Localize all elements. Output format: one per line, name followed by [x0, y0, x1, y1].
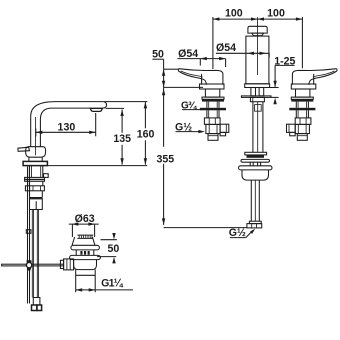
svg-text:130: 130 — [58, 121, 76, 133]
svg-text:160: 160 — [137, 129, 155, 141]
supply tube 1 — [32, 210, 33, 298]
body neck left line — [28, 157, 30, 161]
flange dish 2 — [70, 255, 101, 259]
valve L washer outline — [202, 97, 224, 99]
dim 1-25 underline — [275, 64, 295, 66]
hose end bold square right — [37, 305, 42, 311]
washer bar 2 — [25, 180, 45, 182]
svg-text:50: 50 — [108, 243, 120, 255]
drain dish 2 (front) — [239, 166, 273, 170]
dim 100-100 line — [213, 18, 303, 20]
dim 160 arrow down — [144, 158, 147, 165]
RIGHT VALVE (mirror) — [287, 69, 337, 141]
base plate — [23, 161, 47, 165]
supply manifold — [30, 199, 43, 210]
spout body (front) — [246, 36, 269, 84]
valve L nut — [204, 118, 220, 125]
dim O54L line — [177, 58, 225, 60]
shank inner thread lines — [32, 166, 41, 178]
lever handle right valve — [292, 69, 336, 85]
dim O54L tick left — [199, 59, 201, 66]
valve R shank lower inner — [298, 110, 307, 118]
ext line spout washer plate — [271, 96, 278, 98]
lever boss hex — [64, 259, 74, 270]
manifold top double line — [30, 198, 43, 199]
valve L black bar 1 — [202, 99, 224, 101]
drain collar — [249, 221, 261, 223]
slotted band right — [93, 250, 95, 256]
dim 50/355 vertical line lower — [163, 164, 165, 225]
valve R nut facets — [300, 118, 306, 125]
svg-text:100: 100 — [225, 8, 243, 20]
dim G114 arrow right — [89, 288, 96, 291]
ball joint cone — [27, 268, 31, 271]
valve L nut facets — [209, 118, 215, 125]
waste cap crown bottom — [77, 237, 93, 239]
hose end bold square left — [32, 305, 37, 311]
lever inner edge left valve — [181, 71, 203, 77]
shank mid — [29, 181, 42, 186]
valve L body block — [206, 124, 220, 133]
SIDE VIEW FAUCET — [2, 102, 148, 311]
lever arm underside right valve — [309, 69, 337, 85]
dim O63 arrow left — [72, 222, 79, 225]
dim G12 arrow — [198, 130, 205, 133]
crown knurl ticks — [79, 235, 92, 238]
lever inner edge right valve — [313, 71, 335, 77]
slot 3 — [88, 251, 90, 255]
dim 355 arrow down — [162, 218, 165, 225]
ext line escutcheon — [164, 86, 203, 88]
lower neck — [30, 191, 43, 198]
valve L side fitting — [220, 124, 229, 132]
deck line — [47, 165, 147, 167]
svg-text:Ø54: Ø54 — [216, 42, 236, 54]
dim O54S arrow right — [260, 52, 267, 55]
pull rod — [28, 167, 30, 304]
lever arm underside left valve — [178, 69, 206, 85]
dim G12d diagonal leader — [246, 230, 253, 237]
slotted band left — [75, 250, 77, 256]
riser center line — [35, 117, 37, 155]
dim 1-25 arrow down — [273, 81, 276, 88]
ext line handle top — [164, 68, 179, 70]
dim 130 arrow left — [36, 131, 43, 134]
supply manifold divider — [35, 201, 37, 209]
ext line drain fitting — [164, 227, 247, 229]
dim 100 center arrow left — [251, 17, 258, 20]
dim 135 arrow up — [120, 110, 123, 117]
lever boss end nut — [60, 260, 63, 268]
flange dish 1 — [71, 245, 100, 250]
dim G114 arrow left — [76, 288, 83, 291]
dim 50/355 vertical line upper — [163, 59, 165, 147]
ext line right valve axis — [301, 17, 303, 68]
spout aerator trapezoid — [252, 33, 264, 36]
tailpiece right wall — [94, 270, 96, 293]
ext line left valve axis — [212, 17, 214, 69]
dim 50 arrow down — [162, 81, 165, 88]
svg-text:135: 135 — [113, 133, 131, 145]
ext line drain body bottom — [97, 256, 116, 258]
dim O63 line — [69, 223, 99, 225]
valve L escutcheon — [200, 84, 225, 89]
valve L side fitting inner — [225, 124, 227, 132]
drain top line — [245, 152, 267, 155]
dim 50 underline — [152, 58, 163, 60]
DIMENSIONS — [36, 8, 303, 292]
valve L bottom block line — [208, 135, 218, 137]
dim O54L arrow left — [200, 57, 207, 60]
tailpiece thread line — [76, 274, 96, 276]
valve L bottom block — [208, 134, 218, 141]
aerator — [90, 108, 102, 111]
supply tube 2 — [37, 210, 38, 298]
ext line spout escutcheon bottom — [270, 87, 279, 89]
dim 100 center arrow right — [258, 17, 265, 20]
dim G34 underline leader — [182, 109, 201, 111]
spout inner bottom line — [40, 108, 90, 147]
dim G12d arrow — [250, 229, 255, 234]
valve R body block — [295, 124, 309, 133]
dim O54L arrow right — [219, 57, 226, 60]
valve R fitting step — [290, 132, 296, 135]
drain tube center line — [254, 180, 256, 221]
hose end fitting — [33, 298, 40, 306]
valve L shank lower inner — [209, 110, 218, 118]
ball joint — [26, 262, 31, 267]
hex nut facets — [30, 186, 41, 191]
drain studs (front) — [250, 162, 260, 166]
shank right wall — [42, 166, 44, 178]
valve L fitting step — [220, 132, 226, 135]
valve R side fitting inner — [288, 124, 290, 132]
waste cap crown top — [77, 234, 93, 236]
spout escutcheon — [245, 84, 270, 88]
dim 160 line lower — [144, 140, 146, 164]
spout stud right — [259, 88, 264, 96]
tailpiece left wall — [75, 270, 77, 293]
dim 50d arrow down — [112, 233, 115, 240]
spout threaded tube walls — [253, 102, 263, 153]
valve L body block inner — [209, 124, 217, 133]
dim 130 line — [36, 131, 96, 133]
FRONT VIEW — [239, 17, 273, 228]
valve R side fitting — [287, 124, 296, 132]
spout mounting nut — [250, 97, 264, 101]
spout tube thread rect — [255, 105, 262, 112]
mixer body — [26, 147, 46, 158]
slot 2 — [84, 251, 86, 255]
shank right fitting — [44, 174, 49, 178]
valve L black bar 2 — [200, 108, 226, 111]
dim O54S line — [216, 53, 269, 57]
dim 135 line upper — [121, 110, 123, 133]
spout cap (front) — [248, 26, 267, 33]
svg-text:100: 100 — [267, 8, 285, 20]
dim 100 right arrow — [296, 17, 303, 20]
dim O63 arrow right — [88, 222, 95, 225]
ext line drain flange top — [101, 239, 117, 241]
dim 1-25 vertical — [274, 65, 276, 86]
dim 135 arrow down — [120, 158, 123, 165]
valve L shank upper inner — [209, 102, 218, 108]
dim O54S arrow left — [247, 52, 254, 55]
valve R bottom block line — [297, 135, 307, 137]
valve R upper cylinder — [296, 89, 310, 97]
valve L shank upper — [207, 102, 219, 108]
slot 1 — [80, 251, 82, 255]
spout center line — [257, 17, 259, 75]
dim 50 arrow up — [162, 69, 165, 76]
ext line spout outlet — [106, 107, 124, 109]
svg-text:G1¼: G1¼ — [101, 278, 124, 290]
lever handle (side) — [18, 147, 30, 151]
washer bar 1 — [25, 177, 45, 179]
pull rod knob — [26, 230, 31, 234]
flare right — [92, 237, 95, 245]
waste cap right wall — [94, 224, 96, 237]
valve R black bar 2 — [289, 108, 315, 111]
dim G114 line — [76, 289, 133, 291]
drain body (front) — [242, 170, 269, 180]
dim 130 tick axis — [35, 128, 37, 136]
dim 100 left arrow — [213, 17, 220, 20]
valve R shank upper inner — [298, 102, 307, 108]
dim 160 line upper — [144, 102, 146, 128]
spout outer contour — [31, 102, 107, 147]
ball joint clamp — [27, 260, 32, 263]
valve R escutcheon — [291, 84, 316, 89]
dim 1-25 arrow up — [273, 98, 276, 105]
drain knurl bar (front) — [247, 155, 265, 158]
spout tube center line — [257, 102, 259, 153]
spout washer plate — [241, 96, 271, 98]
dim G12d underline — [230, 237, 246, 239]
flare left — [72, 237, 75, 245]
lever boss facets — [67, 259, 70, 270]
valve R black bar 1 — [291, 99, 313, 101]
drain G half nut — [247, 224, 262, 228]
waste cap left wall — [71, 224, 73, 237]
dim 135 line lower — [121, 145, 123, 165]
valve L shank lower — [207, 110, 219, 118]
shank left wall — [28, 166, 30, 178]
dim G12 underline leader — [176, 131, 201, 133]
valve L upper cylinder — [205, 89, 219, 97]
dim 130 arrow right — [89, 131, 96, 134]
dim 355 arrow up — [162, 89, 165, 96]
spout nut facet — [252, 97, 254, 101]
valve R nut — [295, 118, 311, 125]
drain tube walls (front) — [251, 180, 259, 221]
mounting hex nut — [25, 186, 44, 191]
valve R shank lower — [296, 110, 308, 118]
LEFT VALVE — [178, 69, 228, 141]
valve R bottom block — [297, 134, 307, 141]
svg-text:50: 50 — [152, 48, 164, 60]
dim O54L tick right — [225, 59, 227, 67]
ext line aerator — [95, 113, 97, 136]
svg-text:355: 355 — [156, 153, 174, 165]
horizontal linkage rod — [2, 264, 64, 266]
dim 160 arrow up — [144, 102, 147, 109]
ext line spout top — [104, 101, 147, 103]
spout stud left — [251, 88, 256, 96]
valve R shank upper — [296, 102, 308, 108]
drain nut facets — [252, 224, 257, 228]
body neck right line — [41, 157, 43, 161]
SIDE VIEW POP-UP WASTE — [60, 224, 100, 292]
waste body — [74, 260, 97, 270]
valve R washer outline — [291, 97, 313, 99]
valve R body block inner — [298, 124, 306, 133]
dim 50d arrow up — [112, 257, 115, 264]
lever handle left valve — [179, 69, 223, 85]
drain dish 1 (front) — [241, 159, 270, 162]
